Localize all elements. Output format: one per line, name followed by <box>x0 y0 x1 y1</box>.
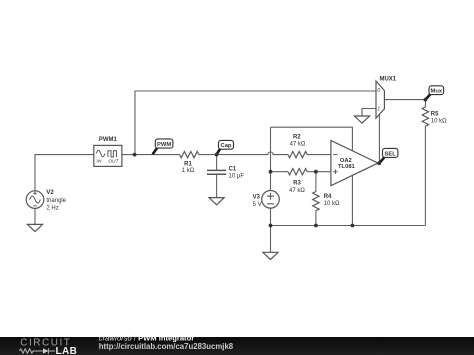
svg-text:1 kΩ: 1 kΩ <box>182 168 195 174</box>
svg-text:R4: R4 <box>324 194 332 200</box>
junction node Mux output <box>424 98 428 102</box>
svg-text:R2: R2 <box>293 134 301 140</box>
wire R1 to R2 with hop over V3 rail <box>199 152 288 155</box>
svg-text:1: 1 <box>377 106 380 112</box>
resistor R3 <box>288 169 307 175</box>
svg-text:OUT: OUT <box>108 158 119 164</box>
wire bottom rail <box>271 225 426 227</box>
wire V3 top vertical <box>270 127 272 190</box>
svg-text:5 V: 5 V <box>253 202 262 208</box>
flag Cap <box>217 140 234 154</box>
flag PWM <box>153 139 173 154</box>
wire Mux node to R5 <box>424 100 426 107</box>
capacitor C1 <box>207 170 226 174</box>
wire Cap node to C1 <box>216 155 218 171</box>
wire PWM1 output to R1 <box>122 154 180 156</box>
resistor R1 <box>180 151 199 157</box>
ground under V2 <box>27 224 42 231</box>
wire V3 bottom to rail <box>270 208 272 225</box>
junction node Cap <box>215 153 219 157</box>
ground under V3 <box>263 252 278 259</box>
flag SEL <box>380 148 398 163</box>
svg-text:0: 0 <box>377 88 380 94</box>
wire MUX input 1 to ground <box>362 109 376 117</box>
svg-text:Mux: Mux <box>430 89 442 95</box>
wire R3 to op-amp non-inverting input <box>307 171 331 173</box>
svg-text:IN: IN <box>96 158 101 164</box>
svg-text:Cap: Cap <box>221 143 232 149</box>
svg-text:47 kΩ: 47 kΩ <box>289 188 305 194</box>
svg-text:triangle: triangle <box>46 198 66 204</box>
junction node R4 bottom rail <box>314 224 318 228</box>
svg-text:R1: R1 <box>184 162 192 168</box>
wire op-amp V- pin to rail <box>351 175 353 225</box>
junction node at PWM1 output <box>133 153 137 157</box>
op-amp OA2 <box>331 141 378 186</box>
svg-text:C1: C1 <box>229 167 237 173</box>
svg-text:PWM: PWM <box>157 142 171 148</box>
wire to R3 left <box>271 171 289 173</box>
junction node R4 / op-amp + <box>314 170 318 174</box>
wire R4 bottom to rail <box>315 211 317 226</box>
svg-text:V2: V2 <box>46 190 54 196</box>
flag Mux <box>426 86 444 100</box>
junction node op-amp V- rail <box>351 224 355 228</box>
svg-text:LAB: LAB <box>56 346 78 355</box>
junction node V3 bottom rail <box>269 224 273 228</box>
svg-text:47 kΩ: 47 kΩ <box>290 142 306 148</box>
wire MUX output to Mux node <box>384 99 425 101</box>
svg-text:10 kΩ: 10 kΩ <box>324 201 340 207</box>
junction node op-amp output / SEL <box>377 161 381 165</box>
wire C1 to ground <box>216 174 218 197</box>
PWM generator PWM1 <box>94 145 122 166</box>
wire node A up and across to MUX input 0 <box>135 91 376 155</box>
wire node to R4 top <box>315 172 317 192</box>
resistor R5 <box>422 107 428 126</box>
svg-text:TL081: TL081 <box>338 164 356 170</box>
svg-text:PWM1: PWM1 <box>99 137 118 143</box>
resistor R4 <box>313 192 319 211</box>
wire V2 bottom to ground <box>34 208 36 224</box>
svg-text:10 µF: 10 µF <box>229 174 245 180</box>
wire V3 positive rail to op-amp V+ pin <box>271 127 353 151</box>
resistor R2 <box>288 151 307 157</box>
wire R2 to op-amp inverting input <box>307 154 331 156</box>
svg-text:R5: R5 <box>431 111 439 117</box>
voltage source V2 <box>26 191 44 209</box>
svg-text:http://circuitlab.com/ca7u283u: http://circuitlab.com/ca7u283ucmjk8 <box>99 342 234 351</box>
ground at MUX input 1 <box>354 116 369 123</box>
wire rail to ground under V3 <box>270 226 272 253</box>
junction node V3 / R3 <box>269 170 273 174</box>
svg-text:R3: R3 <box>293 181 301 187</box>
voltage source V3 <box>262 191 280 209</box>
analog mux MUX1 <box>376 81 384 118</box>
svg-text:10 kΩ: 10 kΩ <box>431 119 447 125</box>
svg-text:V3: V3 <box>253 194 261 200</box>
wire V2 to PWM1 input <box>35 155 94 191</box>
wire MUX select to op-amp output node <box>378 114 380 163</box>
svg-text:MUX1: MUX1 <box>379 76 396 82</box>
wire R5 bottom down right side to bottom rail <box>424 126 426 225</box>
svg-text:SEL: SEL <box>385 151 397 157</box>
ground under C1 <box>209 198 224 205</box>
svg-text:2 Hz: 2 Hz <box>46 206 58 212</box>
logo resistor zigzag and diode <box>20 348 56 354</box>
